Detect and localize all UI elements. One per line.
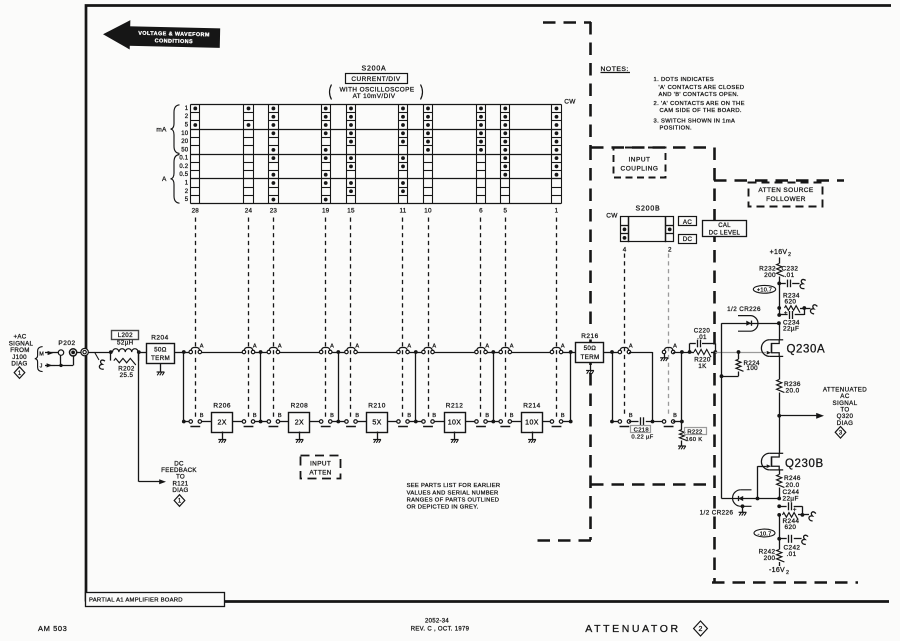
svg-text:VALUES AND SERIAL NUMBER: VALUES AND SERIAL NUMBER [407, 490, 499, 496]
attenuator R208 2X [280, 421, 289, 423]
input coupling label dashed box [614, 148, 666, 178]
svg-text:52µH: 52µH [117, 340, 134, 347]
svg-text:6: 6 [479, 208, 483, 215]
input coupling region dashed top [591, 146, 714, 149]
ground under R216 [590, 363, 592, 371]
attenuator R214 10X [512, 421, 522, 423]
svg-text:1: 1 [555, 208, 559, 215]
P202 lower tie wire [55, 365, 73, 367]
svg-text:50Ω: 50Ω [584, 345, 597, 352]
CAL DC LEVEL boxed label [703, 221, 747, 237]
svg-text:2: 2 [788, 252, 791, 258]
junction down to B row [612, 352, 614, 422]
A contact 11 [397, 350, 401, 354]
svg-text:+: + [793, 506, 797, 513]
svg-text:1: 1 [185, 180, 189, 186]
svg-text:A: A [485, 343, 489, 349]
svg-text:B: B [673, 413, 677, 419]
svg-text:RANGES OF PARTS OUTLINED: RANGES OF PARTS OUTLINED [407, 497, 500, 503]
resistor R222 160K to ground [680, 430, 687, 441]
svg-text:A: A [510, 343, 514, 349]
atten source follower region left dashed vertical [713, 148, 716, 584]
svg-text:19: 19 [322, 208, 330, 215]
+10.7 test voltage oval [753, 285, 775, 293]
svg-text:20.0: 20.0 [786, 388, 800, 395]
resistor R244 620 [777, 513, 781, 517]
svg-text:-16V: -16V [769, 567, 785, 574]
wire to R216 [571, 352, 576, 354]
stage 5 junction vertical left [493, 352, 495, 422]
svg-text:R206: R206 [213, 402, 231, 409]
svg-text:200: 200 [764, 555, 776, 562]
svg-text:A: A [278, 343, 282, 349]
AC boxed label [679, 217, 697, 226]
inductor L202 with boxed label [112, 331, 139, 340]
svg-text:POSITION.: POSITION. [660, 126, 692, 132]
svg-text:CAL: CAL [718, 223, 731, 229]
svg-text:3. SWITCH SHOWN IN 1mA: 3. SWITCH SHOWN IN 1mA [654, 118, 736, 124]
svg-text:2: 2 [786, 570, 789, 576]
svg-text:1: 1 [185, 106, 189, 112]
brace A rows [171, 155, 180, 204]
svg-text:620: 620 [785, 299, 797, 306]
svg-text:200: 200 [764, 272, 776, 279]
grey wire to Q230A gate [715, 352, 766, 354]
svg-text:A: A [407, 343, 411, 349]
ground under R208 [299, 432, 301, 440]
wire between A contacts stage 1 [202, 352, 243, 354]
S200A column 19 contact strip [322, 104, 331, 203]
svg-text:COUPLING: COUPLING [621, 166, 659, 173]
A contact 10 [416, 352, 424, 354]
wire R224 to CR226 rail [722, 376, 739, 378]
svg-text:'A' CONTACTS ARE CLOSED: 'A' CONTACTS ARE CLOSED [659, 85, 745, 91]
wire between A contacts stage 2 [280, 352, 320, 354]
svg-text:0.22 µF: 0.22 µF [631, 435, 653, 441]
S200A column 6 contact strip [477, 104, 486, 203]
svg-text:.01: .01 [697, 334, 707, 341]
svg-text:B: B [432, 413, 436, 419]
svg-text:M: M [39, 351, 44, 357]
svg-text:AM 503: AM 503 [38, 624, 67, 633]
svg-text:2X: 2X [218, 420, 227, 427]
ground stub on lower CR226 [741, 504, 745, 508]
svg-text:CW: CW [564, 99, 576, 106]
atten source follower label dashed box [749, 183, 823, 207]
svg-text:CONDITIONS: CONDITIONS [155, 38, 193, 45]
A contact 2 of S200B [662, 350, 666, 354]
R216 50 ohm termination [579, 331, 601, 340]
svg-text:2: 2 [668, 247, 672, 254]
DC feedback takeoff line [138, 352, 140, 482]
svg-text:24: 24 [245, 208, 253, 215]
svg-text:0.5: 0.5 [179, 172, 188, 178]
svg-text:2: 2 [185, 114, 189, 120]
svg-text:A: A [432, 343, 436, 349]
svg-text:5X: 5X [372, 420, 381, 427]
INPUT ATTEN label box [301, 456, 341, 479]
S200B contact dots [623, 228, 627, 232]
B contact 15 [338, 421, 346, 423]
svg-text:R212: R212 [446, 402, 464, 409]
svg-text:B: B [407, 413, 411, 419]
svg-text:+10.7: +10.7 [757, 288, 772, 294]
svg-text:INPUT: INPUT [629, 157, 651, 164]
chassis ground stub on input line [95, 352, 100, 360]
svg-text:AND 'B' CONTACTS OPEN.: AND 'B' CONTACTS OPEN. [659, 92, 739, 98]
ground under R214 [532, 432, 534, 440]
A contact 28 [184, 352, 191, 354]
B contact 10 [416, 421, 424, 423]
svg-text:DIAG: DIAG [837, 420, 854, 427]
svg-text:28: 28 [192, 208, 200, 215]
svg-text:B: B [355, 413, 359, 419]
B contact 2 of S200B [662, 420, 666, 424]
B contact 1 [543, 421, 552, 423]
svg-text:ATTENUATOR: ATTENUATOR [585, 623, 680, 635]
svg-text:TERM: TERM [580, 354, 599, 361]
stage 4 junction vertical left [415, 352, 417, 422]
svg-text:P202: P202 [58, 340, 75, 347]
C220 .01 parallel R220 1K [688, 350, 692, 354]
stage 2 junction vertical left [260, 352, 262, 422]
svg-text:B: B [278, 413, 282, 419]
diamond 1 input [14, 367, 25, 379]
svg-text:23: 23 [270, 208, 278, 215]
connector P202 pin circles [58, 350, 63, 355]
S200A column 1 contact strip [552, 104, 562, 203]
attenuated output junction and arrow [777, 414, 781, 418]
input atten region dashed bottom corner [534, 539, 591, 542]
svg-text:ATTEN: ATTEN [309, 469, 331, 476]
atten source follower region bottom dashed [712, 581, 858, 584]
svg-text:A: A [200, 343, 204, 349]
svg-text:A: A [673, 343, 677, 349]
svg-text:+: + [784, 310, 788, 317]
B contact 24 [233, 421, 244, 423]
svg-text:AC: AC [683, 219, 692, 226]
svg-text:OR DEPICTED IN GREY.: OR DEPICTED IN GREY. [407, 505, 479, 511]
svg-text:SEE PARTS LIST FOR EARLIER: SEE PARTS LIST FOR EARLIER [407, 483, 501, 489]
svg-text:-10.7: -10.7 [758, 531, 772, 537]
svg-text:R216: R216 [581, 333, 599, 340]
svg-text:5: 5 [185, 197, 189, 203]
capacitor C218 0.22uF [629, 421, 639, 423]
transistor Q230A [761, 340, 783, 357]
wire R216 to junction [604, 352, 612, 354]
R234 620 source network [779, 283, 781, 315]
label PARTIAL A1 AMPLIFIER BOARD [86, 593, 225, 607]
wire R204 to first junction [175, 352, 184, 354]
diamond 2 title [694, 621, 708, 636]
svg-text:10X: 10X [448, 420, 462, 427]
atten source follower region top dashed [714, 179, 844, 182]
chassis feedthrough at board edge [81, 348, 88, 355]
svg-text:B: B [253, 413, 257, 419]
svg-text:R222: R222 [687, 430, 702, 436]
wire A4 to corner down [629, 352, 653, 354]
svg-text:1/2 CR226: 1/2 CR226 [727, 306, 761, 313]
dashed line contact 4 [624, 254, 626, 416]
S200A column 23 contact strip [269, 104, 279, 203]
resistor R224 100 [738, 352, 740, 359]
svg-text:R204: R204 [151, 335, 169, 342]
svg-text:11: 11 [400, 208, 407, 215]
attenuator R206 2X [202, 421, 212, 423]
S200A column 10 contact strip [424, 104, 433, 203]
attenuator R212 10X [434, 421, 444, 423]
svg-text:B: B [629, 413, 633, 419]
resistor R246 20.0 [779, 470, 781, 474]
ground under R210 [377, 432, 379, 440]
svg-text:20: 20 [181, 139, 189, 145]
svg-text:B: B [330, 413, 334, 419]
diamond 3 output [835, 427, 846, 439]
S200A contact matrix grid [191, 105, 561, 204]
dashed line contact 2 (grey) [668, 254, 670, 416]
A contact 5 [493, 352, 500, 354]
input atten region dashed boundary top [543, 21, 591, 24]
A contact 1 [550, 350, 554, 354]
svg-text:Q230B: Q230B [785, 458, 824, 470]
B contact 4 of S200B [612, 421, 620, 423]
svg-text:22µF: 22µF [783, 496, 799, 503]
R224 tap junction [737, 350, 741, 354]
A contact 15 [338, 352, 346, 354]
dashed lines from S200A columns to contacts [195, 218, 197, 419]
Q230B gate rail from CR226 [758, 466, 767, 468]
ground under R206 [222, 432, 224, 440]
svg-text:B: B [510, 413, 514, 419]
B contact 5 [493, 421, 500, 423]
svg-text:.01: .01 [787, 551, 797, 558]
voltage & waveform conditions arrow [103, 20, 221, 52]
svg-text:100: 100 [747, 365, 759, 372]
CR226 common vertical rail [721, 323, 723, 498]
svg-text:1. DOTS INDICATES: 1. DOTS INDICATES [654, 77, 715, 83]
wire between A contacts stage 5 [512, 352, 551, 354]
svg-text:A: A [355, 343, 359, 349]
svg-text:PARTIAL A1 AMPLIFIER BOARD: PARTIAL A1 AMPLIFIER BOARD [89, 598, 183, 604]
wire feedthrough to L202 [88, 352, 111, 354]
svg-text:10: 10 [424, 208, 432, 215]
wire to R204 [139, 352, 147, 354]
B contact 6 [465, 421, 476, 423]
svg-text:ATTEN SOURCE: ATTEN SOURCE [758, 187, 814, 194]
svg-text:CAM SIDE OF THE BOARD.: CAM SIDE OF THE BOARD. [660, 108, 742, 114]
svg-text:FOLLOWER: FOLLOWER [766, 196, 806, 203]
capacitor C234 22uF [777, 313, 781, 317]
junction right of A2 with vertical to B row [673, 352, 689, 354]
DC boxed label [679, 235, 697, 244]
svg-text:1K: 1K [698, 363, 707, 370]
1/2 CR226 upper diode [722, 323, 779, 325]
svg-text:A: A [253, 343, 257, 349]
svg-text:5: 5 [503, 208, 507, 215]
svg-text:+16V: +16V [770, 249, 788, 256]
B contact 28 [184, 421, 191, 423]
C218 grey boxed label [631, 426, 651, 433]
A contact 19 [319, 350, 323, 354]
capacitor C242 .01 [779, 515, 781, 550]
svg-text:4: 4 [623, 247, 627, 254]
svg-text:2052-34: 2052-34 [425, 619, 449, 625]
A contact 23 [261, 352, 269, 354]
A contact 4 of S200B [612, 352, 620, 354]
svg-text:5: 5 [185, 122, 189, 128]
drain wire into Q230A [779, 323, 781, 340]
svg-text:A: A [629, 343, 633, 349]
diamond 1 feedback [174, 495, 185, 507]
stage 3 junction vertical left [338, 352, 340, 422]
svg-text:S200B: S200B [635, 206, 660, 213]
svg-text:DIAG: DIAG [172, 487, 188, 494]
svg-text:2: 2 [185, 189, 189, 195]
B contact 23 [261, 421, 269, 423]
svg-text:R208: R208 [291, 402, 309, 409]
svg-text:DC LEVEL: DC LEVEL [709, 230, 741, 236]
svg-text:C218: C218 [634, 427, 650, 433]
svg-text:160 K: 160 K [686, 437, 703, 443]
svg-text:0.2: 0.2 [179, 164, 188, 170]
svg-text:B: B [200, 413, 204, 419]
-10.7 test voltage oval [754, 529, 775, 537]
input atten region dashed boundary right vertical [589, 22, 592, 148]
svg-text:Q230A: Q230A [787, 343, 826, 355]
svg-text:TERM: TERM [151, 355, 170, 362]
svg-text:2X: 2X [295, 420, 304, 427]
resistor R242 200 [777, 550, 785, 562]
svg-text:20.0: 20.0 [786, 482, 800, 489]
svg-text:2. 'A' CONTACTS ARE ON THE: 2. 'A' CONTACTS ARE ON THE [654, 101, 745, 107]
attenuator R210 5X [357, 421, 366, 423]
svg-text:A: A [561, 343, 565, 349]
svg-text:50: 50 [181, 147, 189, 153]
svg-text:B: B [485, 413, 489, 419]
svg-text:15: 15 [347, 208, 355, 215]
capacitor C232 .01 to AC ground [779, 283, 786, 285]
resistor R236 20.0 [779, 357, 781, 380]
svg-text:A: A [162, 176, 167, 183]
svg-text:22µF: 22µF [783, 326, 799, 333]
svg-text:L202: L202 [118, 332, 134, 339]
A contact 24 [242, 350, 246, 354]
wire between A contacts stage 3 [357, 352, 397, 354]
stage 5 right junction vertical [570, 352, 572, 422]
svg-text:25.5: 25.5 [120, 372, 134, 379]
B contact 11 [388, 421, 399, 423]
svg-text:DC: DC [683, 236, 693, 243]
svg-text:S200A: S200A [361, 66, 386, 73]
B contact 19 [310, 421, 321, 423]
svg-text:R210: R210 [368, 402, 386, 409]
brace mA rows [171, 105, 180, 154]
resistor R202 parallel [110, 352, 112, 361]
transistor Q230B [761, 453, 783, 470]
svg-text:mA: mA [156, 127, 167, 134]
svg-text:10: 10 [181, 131, 189, 137]
1/2 CR226 lower diode [722, 498, 758, 500]
divider dashed between input atten and follower [591, 483, 714, 486]
S200A column 15 contact strip [347, 104, 356, 203]
svg-text:CW: CW [606, 213, 618, 220]
wire P202 to feedthrough [77, 352, 81, 354]
wire down to Q230B drain [779, 416, 781, 454]
brace for P202 pins [35, 347, 43, 372]
svg-text:AT 10mV/DIV: AT 10mV/DIV [353, 93, 396, 100]
R222 grey boxed label [685, 428, 707, 435]
stage 1 junction vertical left [183, 352, 185, 422]
svg-text:J: J [40, 364, 43, 370]
S200A column 28 contact strip [191, 104, 200, 203]
A contact 6 [475, 350, 479, 354]
svg-text:2: 2 [699, 626, 703, 633]
S200A column 5 contact strip [501, 104, 510, 203]
resistor R232 200 [777, 264, 785, 277]
svg-text:1/2 CR226: 1/2 CR226 [700, 510, 734, 517]
svg-text:B: B [561, 413, 565, 419]
ground on A contact 2 left pin [664, 354, 666, 358]
ground under R204 [160, 364, 162, 373]
S200B switch box [621, 217, 674, 242]
S200A column 11 contact strip [399, 104, 408, 203]
svg-text:620: 620 [785, 524, 797, 531]
svg-text:CURRENT/DIV: CURRENT/DIV [351, 76, 400, 83]
svg-text:50Ω: 50Ω [154, 346, 167, 353]
svg-text:REV. C , OCT. 1979: REV. C , OCT. 1979 [411, 627, 470, 633]
S200A column 24 contact strip [244, 104, 254, 203]
svg-text:INPUT: INPUT [310, 460, 331, 467]
svg-text:R214: R214 [523, 402, 541, 409]
svg-text:A: A [330, 343, 334, 349]
wire between A contacts stage 4 [434, 352, 475, 354]
ground under R212 [454, 432, 456, 440]
svg-text:10X: 10X [525, 420, 539, 427]
svg-text:0.1: 0.1 [179, 156, 188, 162]
svg-text:.01: .01 [785, 272, 795, 279]
